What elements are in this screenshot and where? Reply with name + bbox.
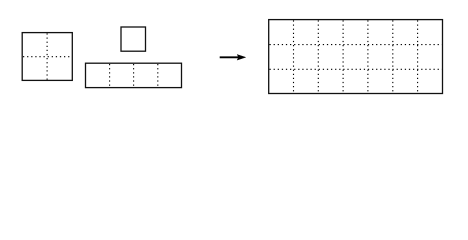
- large rectangle vertical dotted grid line 2: [317, 20, 319, 92]
- arrow shaft: [220, 56, 240, 58]
- square piece 2x2 vertical dotted grid line: [46, 33, 48, 79]
- bar piece dotted grid line 1: [109, 64, 111, 87]
- large rectangle horizontal dotted grid line 2: [270, 68, 442, 70]
- square piece 2x2 horizontal dotted grid line: [23, 56, 72, 58]
- horizontal bar piece 4x1 outline: [86, 63, 182, 87]
- large rectangle vertical dotted grid line 4: [367, 20, 369, 92]
- large rectangle vertical dotted grid line 5: [392, 20, 394, 92]
- small square piece 1x1 outline: [121, 27, 146, 51]
- large rectangle 7x3 outline: [269, 20, 443, 94]
- bar piece dotted grid line 3: [157, 64, 159, 87]
- square piece 2x2 outline: [22, 33, 72, 81]
- large rectangle vertical dotted grid line 1: [293, 20, 295, 92]
- large rectangle vertical dotted grid line 6: [417, 20, 419, 92]
- arrow head: [237, 55, 246, 61]
- large rectangle horizontal dotted grid line 1: [270, 44, 442, 46]
- large rectangle vertical dotted grid line 3: [342, 20, 344, 92]
- bar piece dotted grid line 2: [133, 64, 135, 87]
